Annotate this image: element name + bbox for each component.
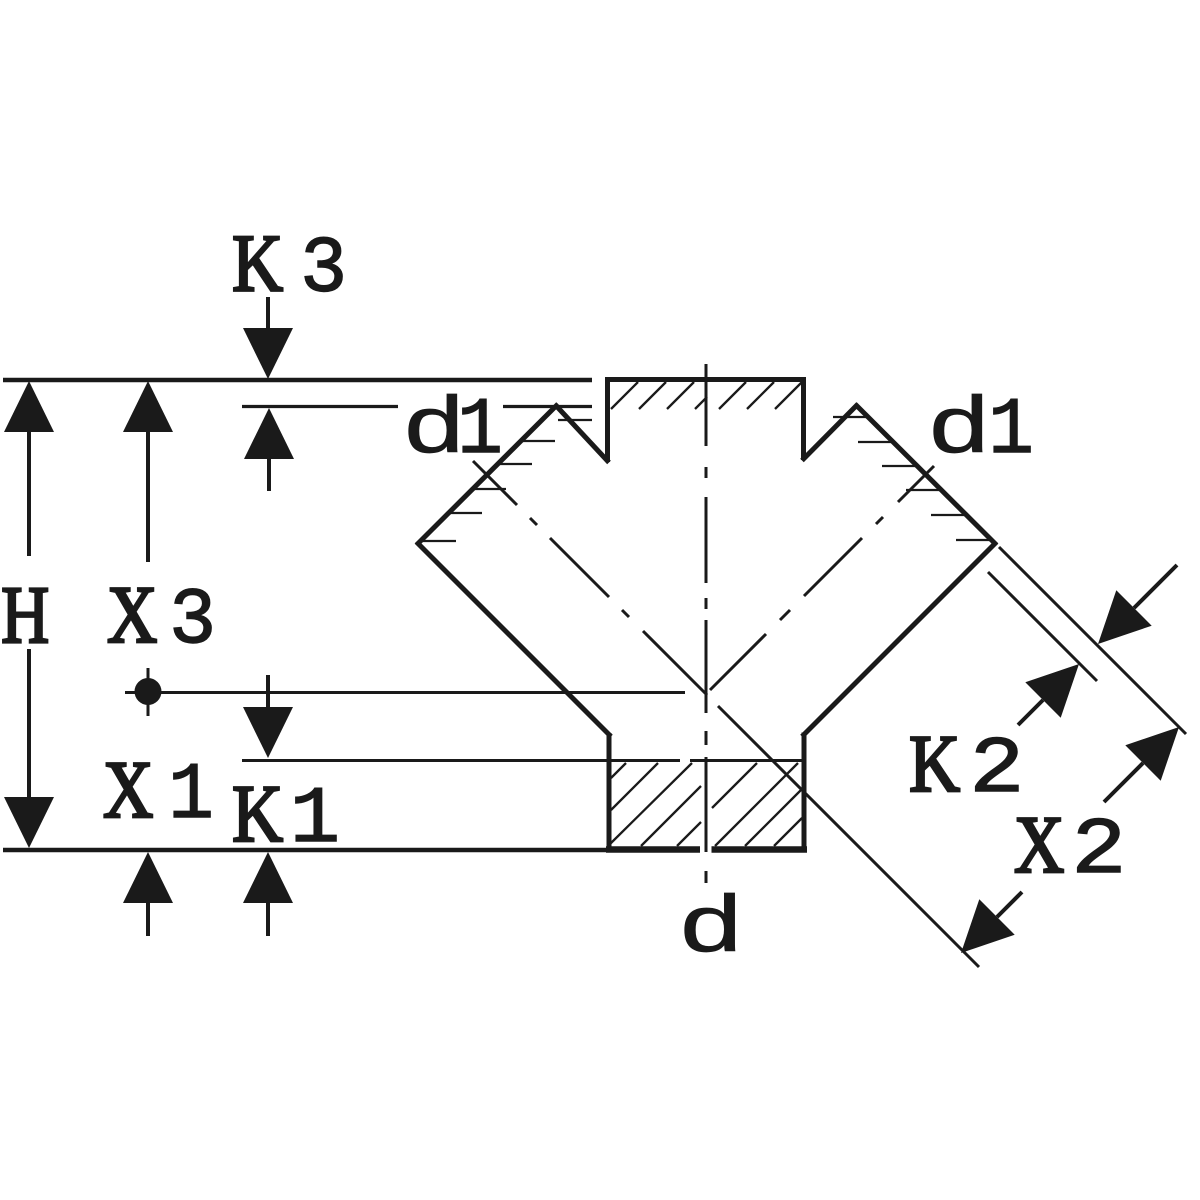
arrow H top up <box>4 381 54 432</box>
arrow K1 bottom up <box>243 852 293 903</box>
wire left body edge <box>417 542 612 737</box>
node center dot <box>135 678 162 705</box>
top socket hatching <box>611 382 802 409</box>
svg-text:K: K <box>909 718 960 809</box>
svg-text:1: 1 <box>457 386 503 476</box>
bottom spigot hatching left half <box>610 763 701 846</box>
svg-text:X: X <box>107 570 157 661</box>
wire K2/X2 extension line outer <box>999 547 1186 734</box>
wire top socket mouth edge <box>605 377 806 382</box>
arrow K2 upper (points down-left) <box>1098 590 1152 644</box>
wire right spigot wall <box>802 733 807 853</box>
wire bottom reference line <box>3 848 609 853</box>
svg-text:K: K <box>232 768 283 859</box>
node vertical centerline <box>705 364 708 883</box>
wire top socket left wall <box>605 377 610 462</box>
arrow stems <box>29 297 1177 936</box>
svg-text:1: 1 <box>290 775 340 866</box>
wire center dot vertical tick <box>147 668 150 716</box>
arrow X2 lower (points down-left) <box>961 899 1015 953</box>
wire K2 extension line inner <box>988 572 1097 681</box>
svg-text:d: d <box>677 885 744 975</box>
svg-text:3: 3 <box>300 224 347 315</box>
wire right body edge <box>802 542 997 737</box>
svg-text:K: K <box>232 218 283 309</box>
svg-text:H: H <box>1 571 49 661</box>
node left branch centerline <box>473 461 979 967</box>
wire right notch diagonal <box>802 404 858 461</box>
svg-text:X: X <box>1014 800 1064 891</box>
left branch socket hatching <box>422 420 592 541</box>
arrows <box>4 328 1179 953</box>
arrow K1 down <box>243 707 293 758</box>
wire left spigot wall <box>607 733 612 852</box>
wire d1 dimension line right segment <box>503 405 592 408</box>
wire left notch diagonal <box>555 405 609 463</box>
arrow K3 down <box>243 328 293 379</box>
arrow d1 up <box>244 408 294 459</box>
wire right branch mouth face <box>855 404 997 545</box>
fitting body outline <box>417 377 997 852</box>
wire d1 dimension line left segment <box>242 405 398 408</box>
arrow X2 upper (points up-right) <box>1125 727 1179 781</box>
node right branch centerline <box>710 466 934 690</box>
wire K1 dimension line <box>242 759 680 762</box>
wire left branch mouth face <box>417 404 559 545</box>
wire top socket right wall <box>801 377 806 460</box>
arrow X3 top up <box>123 381 173 432</box>
arrow X1 bottom up <box>123 852 173 903</box>
svg-text:X: X <box>103 745 153 836</box>
wire socket depth line in spigot <box>690 759 802 762</box>
bottom spigot hatching right half <box>712 763 802 846</box>
wire top reference line <box>3 378 592 383</box>
wire spigot bottom edge left <box>606 846 700 853</box>
wire spigot bottom edge right <box>712 846 808 853</box>
right branch socket hatching <box>833 417 992 540</box>
wire X3 center dimension line <box>125 691 685 694</box>
svg-text:1: 1 <box>168 751 214 841</box>
svg-text:d: d <box>927 385 992 476</box>
svg-text:2: 2 <box>1071 805 1126 896</box>
svg-text:1: 1 <box>988 386 1034 476</box>
arrow H bottom down <box>4 797 54 848</box>
arrow K2 lower (points up-right) <box>1025 664 1079 718</box>
svg-text:3: 3 <box>169 575 216 666</box>
